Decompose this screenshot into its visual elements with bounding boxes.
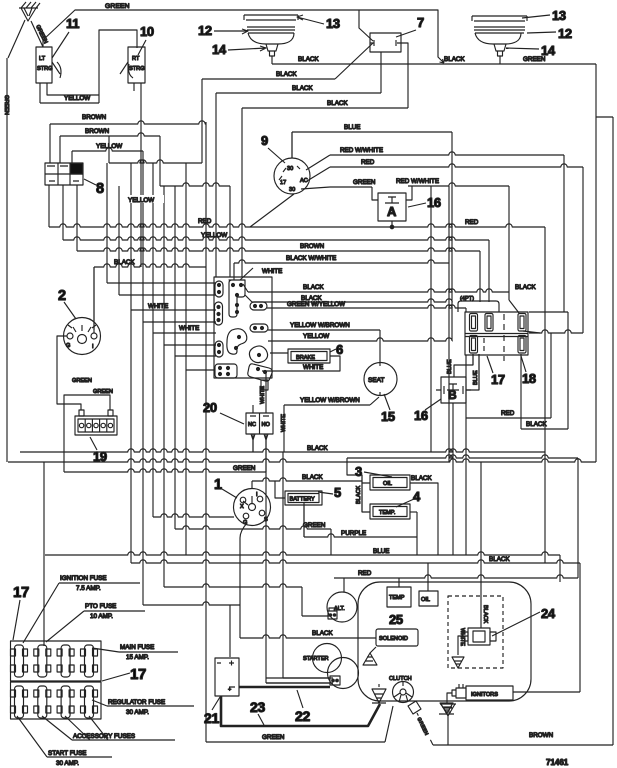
svg-text:BLACK: BLACK (298, 56, 319, 63)
wire brake loop white (262, 356, 340, 371)
svg-text:BLUE: BLUE (473, 370, 479, 385)
wire v431 (430, 186, 432, 452)
wire y370 (186, 369, 215, 371)
starter (313, 644, 342, 673)
svg-text:18: 18 (522, 371, 536, 386)
wire y587 (164, 584, 302, 587)
wire green5 diag to ground (385, 706, 393, 742)
svg-text:13: 13 (326, 16, 340, 31)
label GREEN diag clutch (415, 714, 434, 742)
wire blue2 (45, 552, 560, 555)
svg-text:21: 21 (204, 710, 219, 726)
svg-text:BLACK: BLACK (515, 284, 536, 291)
wire v284 (283, 405, 285, 452)
wire circle2 I up (93, 267, 95, 333)
svg-text:BLACK: BLACK (114, 259, 135, 266)
wire brown4 (433, 744, 613, 746)
wire black diag to f3 (509, 300, 519, 313)
svg-text:BLACK: BLACK (276, 71, 297, 78)
svg-text:STRG: STRG (37, 66, 53, 72)
svg-text:5: 5 (334, 485, 341, 500)
wire ywbrown2 (284, 404, 370, 406)
wire y605 (143, 602, 240, 605)
svg-text:X: X (240, 504, 244, 510)
wire green bus (64, 469, 266, 472)
svg-text:RT: RT (132, 56, 140, 62)
wire brake left (270, 352, 288, 354)
fuse accessory fuse b (57, 686, 74, 718)
lamp right lens 13 (472, 16, 527, 21)
svg-text:RED W/WHITE: RED W/WHITE (340, 147, 383, 154)
clutch plug (408, 701, 421, 714)
connector right small 1 (250, 302, 267, 310)
wire v230 (229, 186, 231, 277)
wire v479 (478, 354, 480, 390)
wire v453 (452, 403, 454, 555)
wire v160 (159, 136, 161, 186)
wire purple (304, 534, 417, 537)
wire v94 (93, 267, 95, 330)
fuse panel boxes (11, 641, 102, 719)
wire redwhite key (330, 152, 564, 155)
fuse f3 (518, 314, 526, 332)
battery gauge 5 (285, 491, 322, 505)
wire lineB (160, 183, 230, 186)
wire v489 (488, 240, 490, 302)
wire y295 (119, 294, 216, 296)
wire v568 (567, 312, 569, 429)
wire grnyel (267, 305, 466, 308)
svg-text:CLUTCH: CLUTCH (389, 676, 412, 682)
wire red main (49, 224, 545, 227)
wire white l1 (131, 309, 216, 311)
wire black c2 (94, 264, 206, 267)
svg-text:19: 19 (93, 449, 107, 464)
wire sw7 bottom (380, 52, 382, 93)
svg-text:LT: LT (39, 56, 46, 62)
svg-text:YELLOW: YELLOW (128, 197, 154, 204)
wire v109 (108, 136, 110, 163)
svg-text:BROWN: BROWN (529, 732, 554, 739)
svg-text:30 AMP.: 30 AMP. (56, 760, 79, 767)
svg-text:BLACK: BLACK (482, 605, 488, 624)
svg-text:A: A (387, 204, 397, 219)
svg-text:BLUE: BLUE (344, 124, 360, 131)
wire black t1 (248, 289, 509, 292)
svg-text:YELLOW: YELLOW (96, 143, 122, 150)
wire vleft (6, 58, 8, 462)
svg-text:8: 8 (96, 181, 104, 197)
wire v63 (62, 185, 64, 240)
svg-text:BLACK W/WHITE: BLACK W/WHITE (286, 255, 336, 262)
wire white diag t-top (240, 268, 253, 280)
svg-text:11: 11 (66, 16, 79, 31)
connector blob 2 (249, 346, 267, 363)
svg-text:WHITE: WHITE (179, 325, 199, 332)
wire y458 (347, 455, 578, 458)
fuse regulator fuse 30A (81, 686, 98, 718)
wire ignitors to ground (447, 693, 452, 703)
svg-text:+: + (228, 687, 231, 693)
wire green5 (206, 741, 385, 743)
svg-text:12: 12 (558, 26, 572, 41)
svg-text:GREEN: GREEN (105, 3, 130, 10)
ground in dashed box (452, 657, 464, 668)
wire v466b (465, 355, 467, 555)
fuse main fuse 15A (57, 645, 74, 677)
svg-text:17: 17 (491, 372, 505, 387)
svg-text:BLACK: BLACK (444, 56, 465, 63)
svg-text:BLUE: BLUE (373, 548, 389, 555)
wire v72 (71, 151, 73, 163)
wire key bottom diag to red (250, 194, 294, 227)
svg-text:BLACK: BLACK (307, 445, 328, 452)
wire clutch ground up (378, 684, 380, 687)
svg-text:BATTERY: BATTERY (290, 497, 316, 503)
wire starter feed 1 (266, 682, 330, 684)
svg-text:14: 14 (212, 42, 227, 57)
svg-text:BLUE: BLUE (447, 359, 453, 374)
wire y678L (266, 677, 333, 679)
wire v242 (241, 108, 243, 277)
wire green top hl (272, 63, 596, 65)
wire y356 (175, 355, 216, 357)
wire black bus1 (20, 449, 545, 452)
wire green4 (175, 526, 331, 529)
wire v331 (330, 529, 332, 555)
svg-text:20: 20 (203, 400, 217, 415)
svg-text:30: 30 (287, 166, 293, 172)
svg-text:OIL: OIL (421, 597, 430, 603)
wire circle2 G (57, 336, 81, 410)
lamp left lens 13 (244, 15, 298, 20)
svg-text:BROWN: BROWN (82, 114, 107, 121)
ground clutch (372, 689, 386, 703)
svg-text:RED: RED (465, 219, 479, 226)
wire v60 (59, 136, 61, 163)
wire green corner (596, 116, 613, 118)
svg-text:6: 6 (336, 342, 343, 357)
wire v380 (379, 330, 381, 362)
wire black5 (252, 478, 362, 481)
svg-text:WHITE: WHITE (459, 628, 465, 646)
connector blob 1 (227, 329, 247, 355)
switch 20 NC NO (246, 413, 273, 434)
wire yellow loop (40, 102, 99, 104)
svg-text:7.5 AMP.: 7.5 AMP. (76, 585, 101, 592)
svg-text:BLACK: BLACK (356, 485, 362, 504)
wire blue key (292, 131, 452, 133)
bendix circle (328, 658, 359, 689)
wire yellow2 (72, 148, 143, 151)
wire v417 (416, 512, 418, 555)
svg-text:PURPLE: PURPLE (341, 530, 366, 537)
svg-text:16: 16 (414, 408, 428, 423)
wire black t diag 2 (245, 295, 252, 302)
diode A 16 (378, 193, 406, 221)
ground solenoid (363, 647, 377, 665)
wire v596 (595, 64, 597, 462)
wire v253 (252, 434, 254, 452)
wire bus563 (131, 560, 580, 563)
ignitors box (466, 686, 513, 700)
wire y322 (143, 321, 216, 323)
switch RT STRG 10 (128, 47, 145, 83)
svg-text:RED: RED (501, 410, 515, 417)
wire brown1 (50, 121, 206, 124)
wire v481 (480, 462, 482, 628)
svg-text:G: G (66, 343, 70, 349)
cable 23 battery down (221, 696, 380, 726)
seat switch 15 (364, 363, 397, 396)
temp gauge 4 (370, 504, 410, 519)
svg-text:25: 25 (389, 612, 403, 627)
svg-text:GREEN: GREEN (523, 56, 546, 63)
wire temp4 right (410, 511, 417, 513)
wire sw7 left diag (335, 43, 373, 79)
connector block outline (214, 277, 272, 378)
svg-text:BLACK: BLACK (302, 474, 323, 481)
wire brown2 (60, 133, 160, 136)
fuse block 17 18 (465, 312, 528, 355)
ground top-left (19, 2, 40, 21)
svg-text:REGULATOR FUSE: REGULATOR FUSE (108, 699, 165, 706)
wire fuse right (529, 330, 583, 333)
wire redwhite2 (408, 183, 509, 186)
svg-text:GREEN: GREEN (233, 465, 256, 472)
ignition unit circle 1 (234, 489, 271, 526)
wire v449 (448, 186, 450, 462)
wire yellow main (63, 237, 489, 240)
svg-text:WHITE: WHITE (260, 386, 266, 404)
svg-text:YELLOW: YELLOW (201, 232, 227, 239)
svg-text:WHITE: WHITE (281, 414, 287, 432)
diode B 16 (441, 377, 466, 403)
lamp right reflector 12 (474, 27, 525, 44)
ground ignitors (439, 703, 454, 714)
wire ground to left edge (8, 20, 25, 58)
brake switch 6 (288, 349, 330, 363)
wire y616 (302, 615, 330, 617)
svg-text:13: 13 (552, 8, 566, 23)
wire v206 (205, 122, 207, 742)
wire v131 (130, 163, 132, 563)
svg-text:GREEN: GREEN (72, 378, 92, 384)
pin block bottom (261, 380, 268, 390)
svg-text:GREEN W/YELLOW: GREEN W/YELLOW (287, 301, 345, 308)
connector bottom left (215, 364, 237, 378)
svg-text:30: 30 (289, 187, 295, 193)
svg-text:17: 17 (130, 666, 146, 683)
switch 7 light switch (370, 33, 401, 52)
svg-text:IGNITION FUSE: IGNITION FUSE (60, 575, 107, 582)
svg-text:GREEN: GREEN (93, 389, 113, 395)
svg-text:WHITE: WHITE (303, 364, 323, 371)
svg-text:ACCESSORY FUSES: ACCESSORY FUSES (73, 733, 135, 740)
svg-text:23: 23 (250, 699, 265, 715)
ignitors plug (452, 684, 466, 698)
alt plug (328, 611, 337, 619)
svg-text:GREEN: GREEN (303, 522, 326, 529)
svg-text:10 AMP.: 10 AMP. (90, 613, 113, 620)
wire v578 (577, 458, 579, 578)
fuse f4 (470, 336, 478, 354)
svg-text:17: 17 (280, 180, 286, 186)
svg-text:GREEN: GREEN (353, 179, 376, 186)
wire y345 (164, 344, 216, 346)
svg-text:STRG: STRG (129, 66, 145, 72)
wire v551 (550, 333, 552, 418)
svg-text:S: S (264, 517, 268, 523)
wire v473 (472, 354, 474, 365)
wire black t2 (252, 299, 452, 302)
wire v141 (140, 83, 142, 267)
wire v49b (48, 185, 50, 227)
wire key top to blue (291, 132, 293, 158)
wire v334 (343, 578, 345, 592)
wire v186 (185, 163, 187, 555)
wire v107 (106, 163, 108, 283)
svg-text:GREEN: GREEN (3, 95, 9, 115)
wire key diag green (301, 187, 330, 189)
pins RT STRG (133, 83, 135, 91)
connector right small 2 (250, 324, 268, 332)
svg-text:WHITE: WHITE (262, 268, 282, 275)
wire starter feed 2 (283, 677, 330, 679)
wire v560 (559, 555, 561, 582)
svg-text:START FUSE: START FUSE (48, 750, 87, 757)
wire v283 (282, 452, 284, 678)
temp box 25 (387, 587, 411, 607)
svg-text:10: 10 (140, 24, 154, 39)
wire v564 (563, 155, 565, 312)
svg-text:STARTER: STARTER (303, 656, 329, 662)
svg-text:YELLOW: YELLOW (303, 333, 329, 340)
key switch 9 (274, 158, 310, 194)
svg-text:IGNITORS: IGNITORS (471, 692, 498, 698)
svg-text:TEMP.: TEMP. (379, 510, 396, 516)
wire v292 (291, 132, 293, 158)
lamp right socket 14 (494, 44, 506, 64)
wire green into diode A (372, 187, 378, 200)
wire y517 (153, 514, 234, 517)
wire oil right (410, 483, 438, 555)
lamp left reflector 12 (247, 27, 295, 44)
fuse ignition fuse 7.5A (11, 645, 28, 677)
svg-text:NO: NO (262, 422, 271, 428)
svg-text:RED: RED (198, 218, 212, 225)
wire v362 (361, 475, 363, 512)
pins LT STRG (40, 30, 137, 103)
wire diode A bottom (391, 221, 393, 227)
wire black t diag 1 (243, 284, 248, 292)
svg-text:AC: AC (300, 178, 308, 184)
battery 21 (215, 658, 239, 696)
wire circle1 top (251, 481, 253, 488)
svg-text:15: 15 (381, 409, 395, 424)
pins 20 bottom arrows (251, 434, 268, 472)
wire v175 (174, 186, 176, 529)
fuse accessory fuse a (34, 686, 51, 718)
svg-text:OIL: OIL (383, 481, 392, 487)
svg-text:16: 16 (427, 195, 441, 210)
wire strip19 right pin (64, 395, 110, 472)
svg-text:BROWN: BROWN (300, 243, 325, 250)
wire gauges left loop (347, 458, 370, 512)
fuse f2 (485, 314, 493, 332)
svg-text:17: 17 (13, 584, 29, 601)
wire lineA (109, 160, 202, 163)
wire sw7 right (401, 43, 408, 108)
svg-text:WHITE: WHITE (148, 303, 168, 310)
svg-text:SOLENOID: SOLENOID (379, 636, 408, 642)
wire red3 (466, 417, 551, 419)
wire y692R (513, 691, 580, 693)
wire white l2 (153, 332, 216, 334)
svg-text:BLACK: BLACK (489, 556, 510, 563)
connector T (229, 280, 245, 317)
wire v202 (201, 79, 203, 163)
wire red key (330, 164, 583, 167)
wire black3 (521, 428, 568, 430)
wire v164 (163, 186, 165, 587)
svg-text:15 AMP.: 15 AMP. (126, 654, 149, 661)
wire v50 (49, 124, 51, 163)
wire v580 (579, 563, 581, 692)
wire black6 (240, 635, 376, 638)
wire y283 (107, 282, 216, 284)
wire bus462 (8, 459, 596, 462)
fuse start fuse 30A (11, 686, 28, 718)
fuse spare fuse top (81, 645, 98, 677)
svg-text:BLACK: BLACK (303, 284, 324, 291)
wire key diag red (307, 167, 330, 181)
wire y683 (266, 682, 333, 684)
connector left oval 3 (215, 341, 223, 357)
wire black y93 (216, 92, 381, 94)
cable 22 battery to starter (239, 686, 330, 689)
svg-text:BLACK: BLACK (526, 421, 547, 428)
connector left oval 1 (215, 281, 223, 297)
svg-text:B: B (448, 388, 457, 402)
wire ground to LT STRG (green) (31, 21, 43, 47)
alternator (327, 592, 357, 622)
wire v452 (451, 132, 453, 341)
wire v44 (43, 462, 45, 646)
wire v399 (398, 578, 400, 587)
wire battery gauge bottom (303, 505, 305, 537)
wire v583 (582, 167, 584, 333)
lamp circle 2 (64, 318, 101, 355)
wire battery gauge left (275, 481, 285, 498)
wire v428 (427, 563, 429, 591)
svg-text:1: 1 (214, 477, 222, 493)
svg-text:71461: 71461 (546, 758, 569, 767)
svg-text:BLACK: BLACK (312, 630, 333, 637)
lamp left socket 14 (266, 44, 278, 64)
wire plug24 left white (458, 636, 468, 655)
svg-text:RED W/WHITE: RED W/WHITE (396, 178, 439, 185)
wire v304 (303, 503, 305, 537)
svg-text:2: 2 (58, 288, 66, 304)
wire v545 (544, 227, 546, 563)
wire v119 (118, 186, 120, 295)
svg-text:BROWN: BROWN (85, 128, 110, 135)
plug 24 (468, 628, 490, 645)
fuse f1 (470, 314, 478, 332)
ground right of clutch (440, 704, 456, 745)
fuse PTO fuse 10A (34, 645, 51, 677)
